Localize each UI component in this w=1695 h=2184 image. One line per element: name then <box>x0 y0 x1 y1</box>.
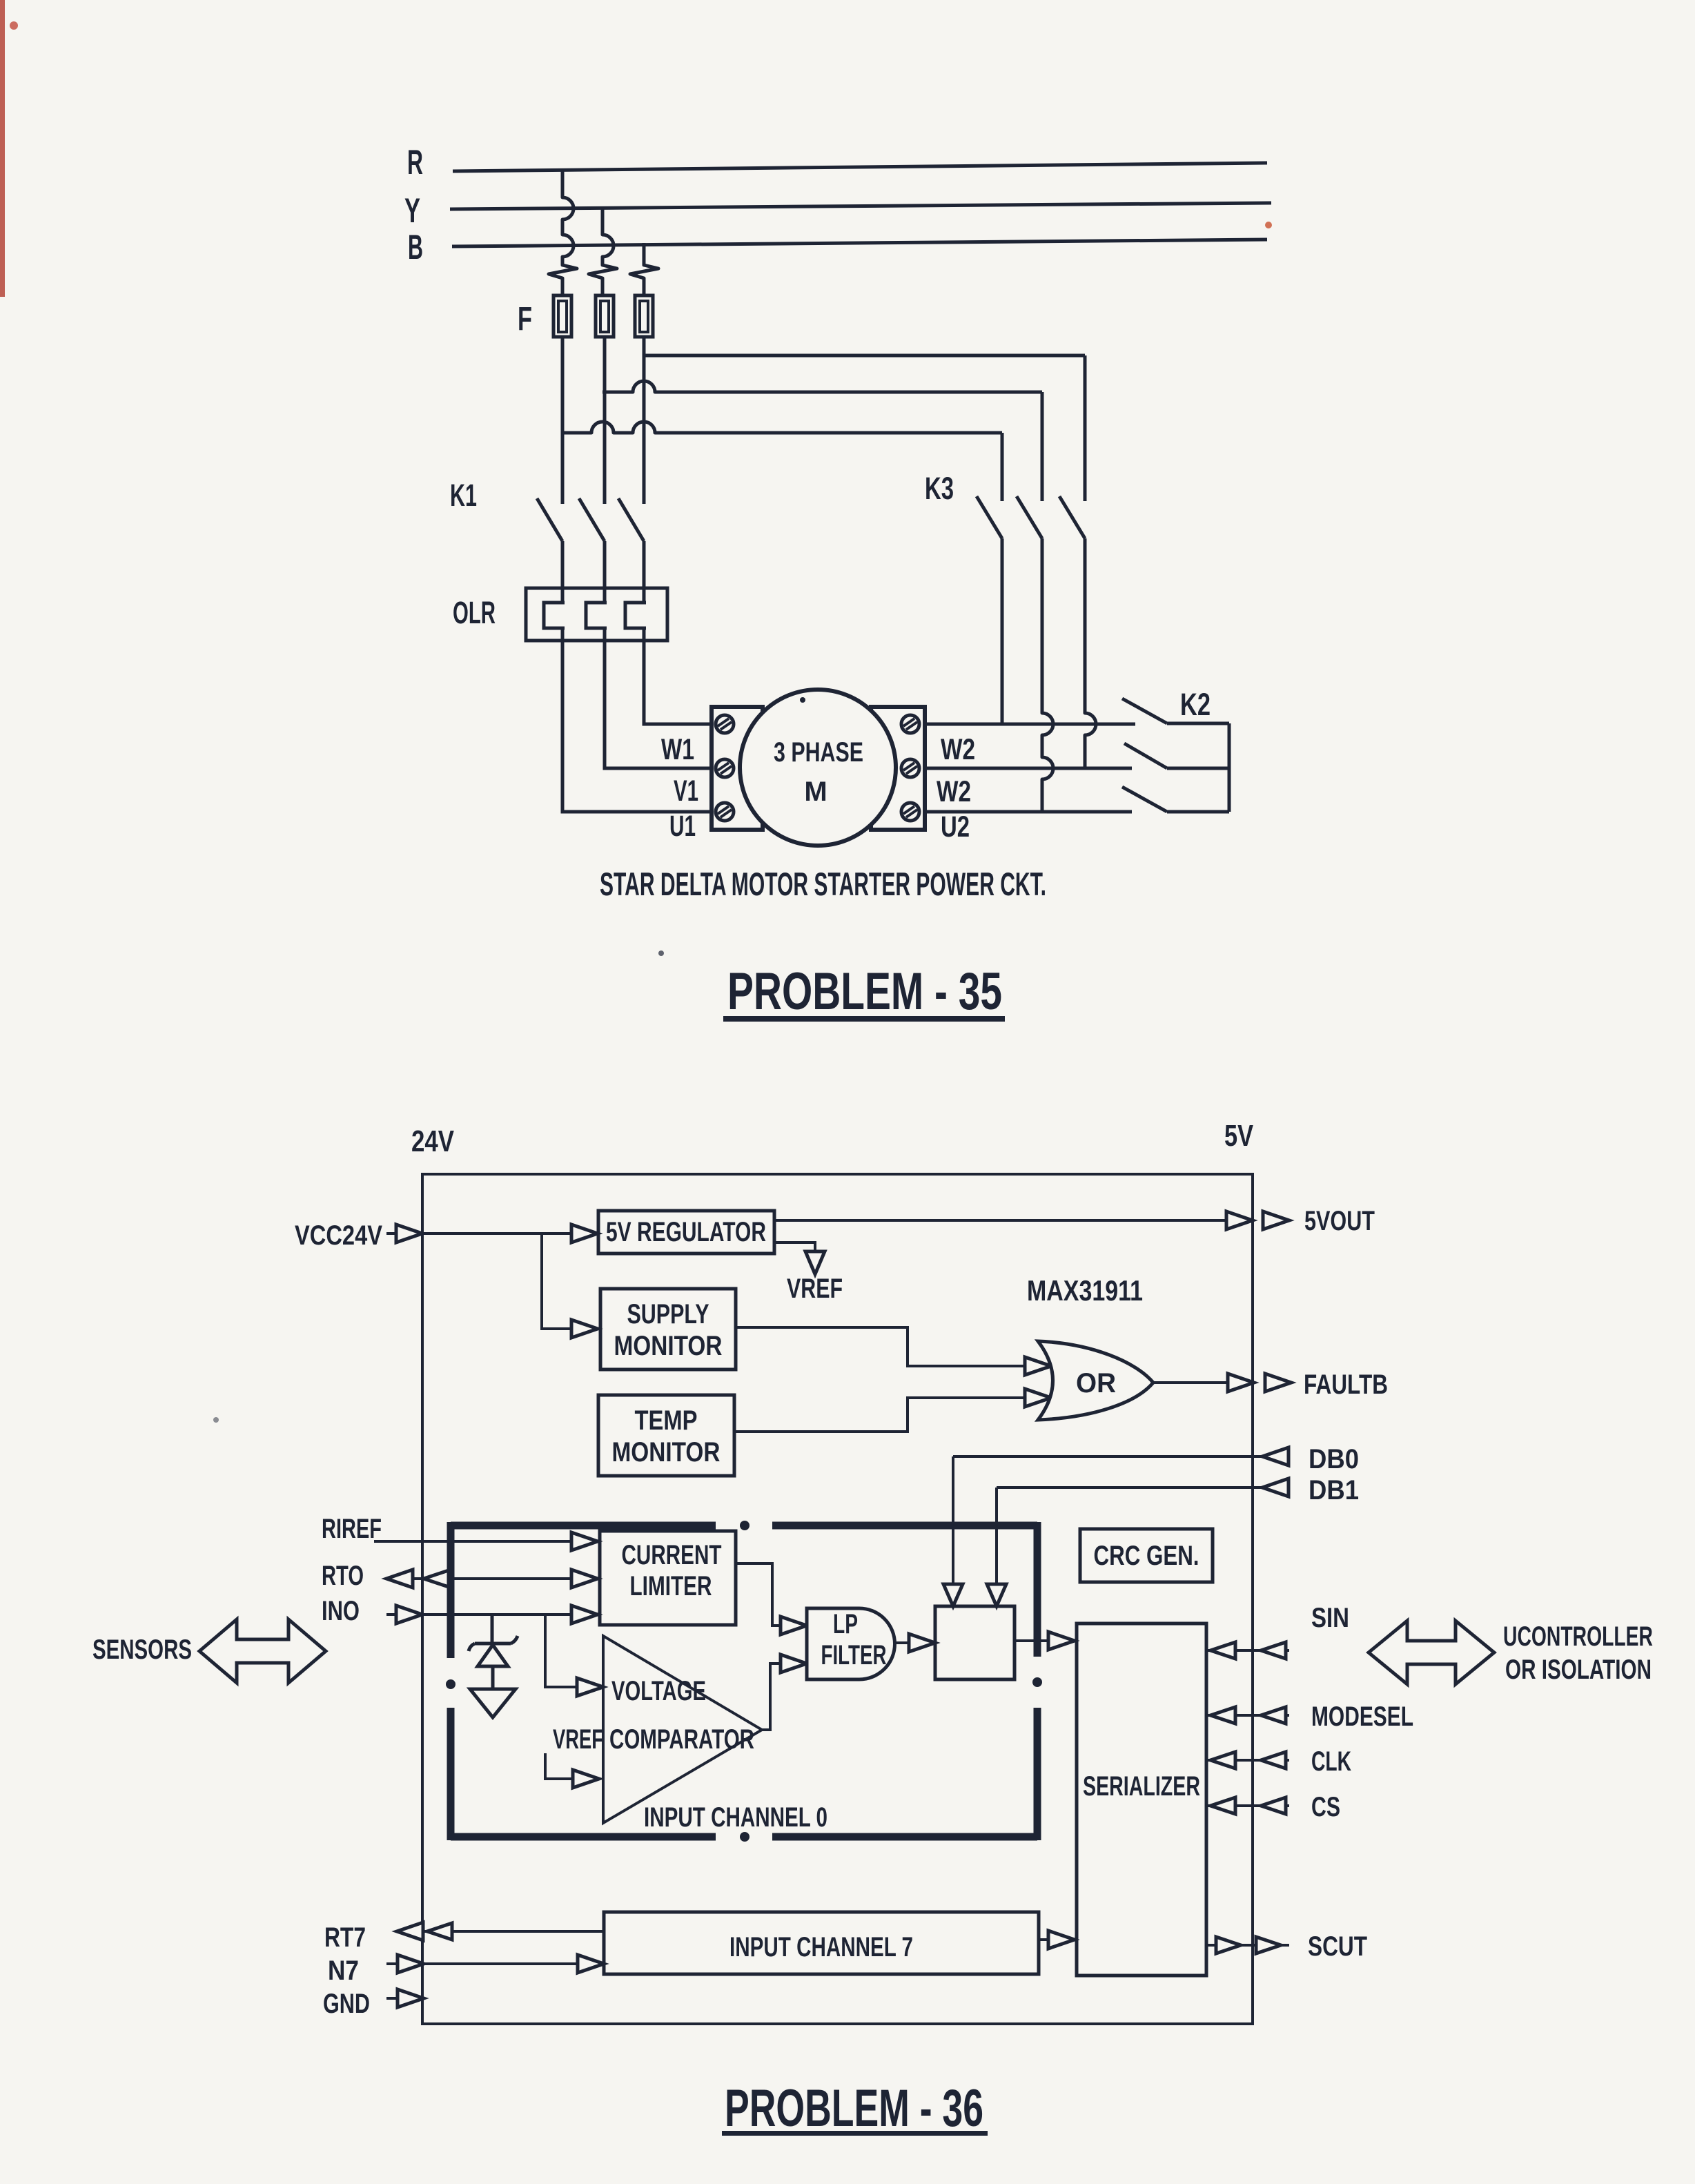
svg-text:N7: N7 <box>328 1956 359 1986</box>
svg-text:F: F <box>518 301 532 338</box>
svg-text:SUPPLY: SUPPLY <box>627 1299 709 1329</box>
svg-text:MONITOR: MONITOR <box>614 1331 723 1361</box>
svg-text:SENSORS: SENSORS <box>92 1635 192 1665</box>
svg-text:U1: U1 <box>669 810 696 843</box>
svg-text:DB0: DB0 <box>1309 1444 1359 1474</box>
svg-text:COMPARATOR: COMPARATOR <box>609 1724 754 1755</box>
svg-text:MAX31911: MAX31911 <box>1027 1274 1143 1307</box>
svg-text:PROBLEM - 36: PROBLEM - 36 <box>725 2079 983 2138</box>
svg-text:K3: K3 <box>925 471 954 506</box>
svg-text:OLR: OLR <box>453 595 496 630</box>
svg-text:INPUT CHANNEL 7: INPUT CHANNEL 7 <box>729 1932 913 1962</box>
svg-text:CURRENT: CURRENT <box>622 1540 722 1570</box>
svg-text:FAULTB: FAULTB <box>1304 1369 1388 1400</box>
svg-text:5V REGULATOR: 5V REGULATOR <box>606 1217 766 1247</box>
svg-text:CRC GEN.: CRC GEN. <box>1094 1541 1199 1571</box>
svg-text:W2: W2 <box>937 775 971 808</box>
svg-text:OR ISOLATION: OR ISOLATION <box>1505 1655 1652 1685</box>
svg-text:M: M <box>804 777 827 807</box>
svg-text:K1: K1 <box>450 478 477 513</box>
svg-text:SIN: SIN <box>1311 1603 1349 1633</box>
svg-text:DB1: DB1 <box>1309 1475 1359 1505</box>
svg-text:B: B <box>408 228 423 266</box>
svg-text:RIREF: RIREF <box>322 1514 382 1544</box>
svg-text:24V: 24V <box>411 1124 455 1158</box>
svg-text:VREF: VREF <box>787 1274 843 1304</box>
svg-text:R: R <box>407 143 423 182</box>
svg-text:K2: K2 <box>1180 687 1211 722</box>
svg-text:5VOUT: 5VOUT <box>1304 1206 1375 1236</box>
svg-text:SERIALIZER: SERIALIZER <box>1083 1771 1200 1802</box>
svg-text:PROBLEM - 35: PROBLEM - 35 <box>727 962 1002 1021</box>
svg-text:MONITOR: MONITOR <box>612 1437 721 1468</box>
svg-text:W1: W1 <box>661 733 694 766</box>
svg-text:LIMITER: LIMITER <box>630 1571 712 1601</box>
svg-text:U2: U2 <box>941 810 970 844</box>
svg-text:VCC24V: VCC24V <box>295 1220 382 1251</box>
svg-text:RTO: RTO <box>322 1561 364 1591</box>
svg-text:INPUT CHANNEL 0: INPUT CHANNEL 0 <box>644 1802 827 1833</box>
svg-text:GND: GND <box>323 1989 370 2019</box>
svg-text:Y: Y <box>404 191 420 230</box>
svg-text:FILTER: FILTER <box>821 1640 887 1670</box>
svg-text:W2: W2 <box>941 733 975 766</box>
svg-text:3 PHASE: 3 PHASE <box>774 737 863 768</box>
svg-text:STAR DELTA MOTOR STARTER POWER: STAR DELTA MOTOR STARTER POWER CKT. <box>600 866 1046 902</box>
svg-text:RT7: RT7 <box>324 1922 366 1953</box>
svg-text:TEMP: TEMP <box>635 1405 698 1436</box>
svg-text:5V: 5V <box>1224 1119 1254 1153</box>
svg-text:INO: INO <box>322 1596 360 1626</box>
svg-text:VOLTAGE: VOLTAGE <box>611 1676 706 1706</box>
svg-text:V1: V1 <box>674 774 698 808</box>
svg-text:CLK: CLK <box>1311 1746 1351 1777</box>
svg-text:SCUT: SCUT <box>1308 1931 1367 1962</box>
svg-text:UCONTROLLER: UCONTROLLER <box>1503 1621 1653 1652</box>
svg-text:VREF: VREF <box>553 1724 603 1755</box>
svg-text:OR: OR <box>1076 1368 1116 1398</box>
svg-text:LP: LP <box>833 1609 858 1639</box>
svg-text:CS: CS <box>1311 1792 1340 1822</box>
svg-text:MODESEL: MODESEL <box>1311 1702 1413 1732</box>
